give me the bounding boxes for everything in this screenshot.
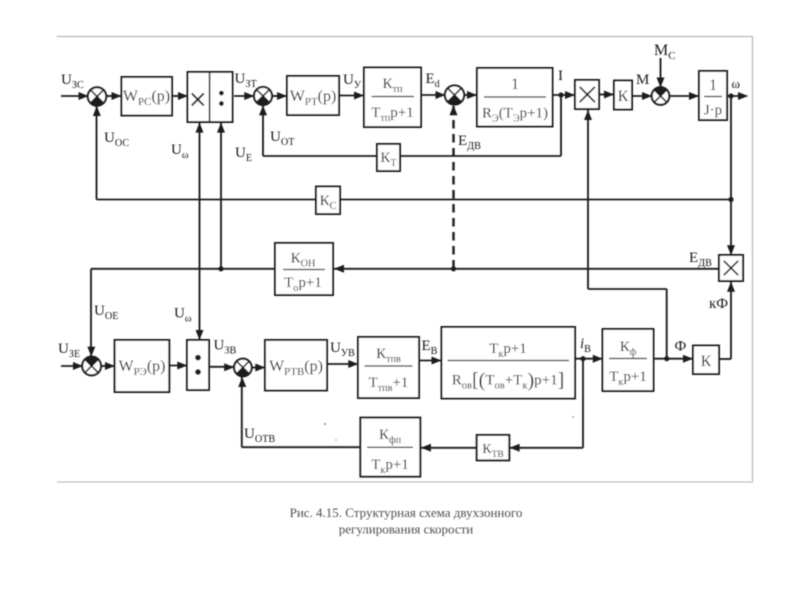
svg-text:J·p: J·p: [704, 103, 722, 119]
svg-text:ω: ω: [732, 76, 741, 91]
svg-text:К: К: [701, 353, 712, 370]
svg-text:I: I: [558, 68, 563, 84]
svg-text:Рис. 4.15. Структурная схема д: Рис. 4.15. Структурная схема двухзонного: [290, 505, 523, 520]
svg-text:М: М: [636, 72, 649, 88]
svg-text:1: 1: [511, 76, 519, 93]
svg-text:регулирования скорости: регулирования скорости: [339, 522, 474, 537]
svg-text:Ф: Ф: [675, 339, 687, 355]
svg-text:К: К: [618, 88, 629, 105]
svg-text:кФ: кФ: [709, 296, 728, 312]
svg-text:1: 1: [709, 77, 717, 94]
